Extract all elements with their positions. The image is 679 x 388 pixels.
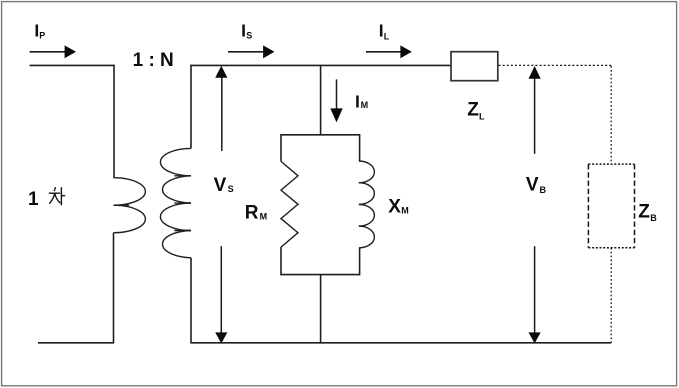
wire shunt box left lower stub <box>280 247 282 275</box>
wire shunt box left upper stub <box>280 134 282 161</box>
svg-text:X: X <box>388 197 401 218</box>
arrow VB down <box>529 246 541 343</box>
wire shunt box right upper stub <box>359 134 361 161</box>
arrow IL <box>366 45 412 58</box>
label ZL <box>467 100 485 122</box>
arrow VS up <box>215 66 227 151</box>
svg-text:L: L <box>479 111 485 121</box>
svg-text:Z: Z <box>638 202 650 223</box>
wire secondary vertical upper stub <box>190 65 192 149</box>
load impedance ZL box <box>451 52 498 81</box>
wire shunt box bottom <box>281 274 360 276</box>
svg-text:V: V <box>214 175 227 196</box>
label ZB <box>638 202 657 223</box>
arrow IM down <box>330 79 342 122</box>
label VS <box>214 175 234 196</box>
label IL <box>379 21 390 42</box>
wire center branch upper <box>320 65 322 134</box>
arrow VS down <box>215 246 227 343</box>
wire shunt box top <box>281 134 360 136</box>
wire primary bottom stub <box>38 342 114 344</box>
svg-text:1: 1 <box>28 189 39 210</box>
resistor RM zigzag <box>281 161 298 247</box>
wire primary top horizontal <box>30 64 114 66</box>
svg-text:R: R <box>245 203 259 224</box>
label VB <box>526 175 547 196</box>
transformer T1 primary winding <box>114 178 146 233</box>
label IM <box>355 91 368 111</box>
transformer T1 secondary winding <box>160 148 191 257</box>
wire primary vertical upper <box>113 65 115 178</box>
label XM <box>388 197 408 218</box>
label RM <box>245 203 267 224</box>
label IP <box>34 21 45 41</box>
svg-text:M: M <box>361 100 369 110</box>
label IS <box>241 21 252 41</box>
wire secondary bottom bus <box>191 342 611 344</box>
svg-text:1 : N: 1 : N <box>133 50 174 71</box>
wire shunt box right lower stub <box>359 248 361 276</box>
dotted wire right vertical lower <box>610 248 612 343</box>
wire secondary vertical lower <box>190 258 192 344</box>
svg-text:B: B <box>540 185 547 195</box>
svg-text:V: V <box>526 175 539 196</box>
svg-text:S: S <box>246 30 252 40</box>
burden impedance ZB dashed box <box>588 164 634 248</box>
svg-text:P: P <box>39 30 45 40</box>
arrow IP <box>30 45 76 58</box>
svg-text:M: M <box>401 206 409 216</box>
wire center branch lower <box>320 275 322 343</box>
svg-text:B: B <box>650 213 657 223</box>
inductor XM winding <box>359 161 375 248</box>
svg-text:M: M <box>260 212 268 222</box>
svg-text:L: L <box>384 32 390 42</box>
wire secondary top horizontal <box>191 64 451 66</box>
svg-text:S: S <box>228 184 234 194</box>
wire primary vertical lower <box>113 233 115 344</box>
arrow IS <box>228 45 275 58</box>
label 1 cha (Korean primary) <box>28 188 65 211</box>
arrow VB up <box>529 66 541 154</box>
dotted wire ZL to corner <box>499 64 612 66</box>
svg-text:Z: Z <box>467 100 479 121</box>
dotted wire right vertical upper <box>610 66 612 164</box>
svg-text:I: I <box>355 91 360 111</box>
